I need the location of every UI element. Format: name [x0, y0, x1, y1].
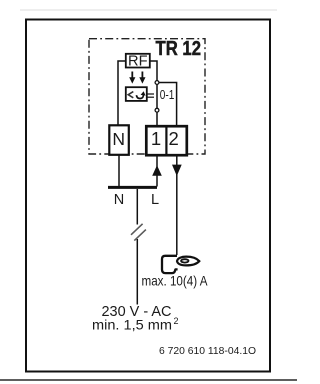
load plug icon	[162, 256, 199, 273]
svg-text:RF: RF	[128, 52, 148, 69]
receiver RF	[126, 52, 150, 69]
svg-text:max. 10(4) A: max. 10(4) A	[142, 272, 209, 288]
arrow out of terminal 2	[172, 165, 182, 176]
switch node lower	[155, 108, 159, 112]
wire node to terminal 1	[156, 112, 158, 126]
thermostat dashed enclosure TR 12	[89, 39, 205, 154]
wire RF to terminal N	[118, 61, 126, 126]
wire RF to switch node	[150, 61, 158, 81]
svg-text:N: N	[114, 192, 124, 208]
svg-text:L: L	[151, 192, 159, 208]
svg-text:0-1: 0-1	[160, 88, 175, 102]
setback thermostat box	[126, 87, 147, 101]
svg-text:2: 2	[174, 316, 179, 326]
wire terminal N to mains bar	[118, 155, 120, 187]
mechanical link (double line)	[147, 94, 154, 97]
cable break mark	[131, 224, 146, 241]
arrow into terminal 1	[152, 165, 162, 176]
mains junction bar	[108, 186, 157, 189]
wire terminal 2 to load	[176, 156, 178, 256]
terminal N	[109, 125, 129, 155]
svg-text:min. 1,5 mm: min. 1,5 mm	[92, 318, 172, 333]
radio signal arrow 2	[139, 72, 145, 84]
mains cable down	[136, 189, 138, 225]
svg-text:TR 12: TR 12	[156, 38, 202, 60]
terminal block 1 2	[146, 126, 187, 155]
svg-text:2: 2	[168, 128, 178, 149]
wire node to terminal 2	[159, 83, 177, 127]
faint header rule	[20, 9, 277, 11]
svg-text:1: 1	[151, 128, 161, 149]
radio signal arrow 1	[129, 72, 135, 84]
wire L up to terminal 1	[156, 156, 158, 187]
footer rule	[0, 379, 297, 381]
switch contact wire	[156, 84, 158, 108]
svg-text:6 720 610 118-04.1O: 6 720 610 118-04.1O	[159, 345, 256, 357]
figure frame	[26, 20, 270, 372]
svg-text:N: N	[112, 129, 125, 149]
switch node upper	[155, 81, 159, 85]
